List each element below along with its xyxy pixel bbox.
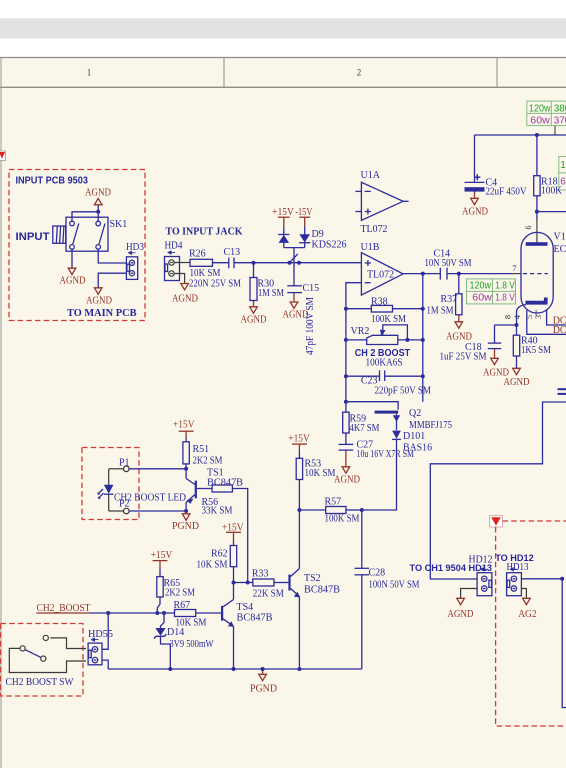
svg-text:HD3: HD3 — [126, 242, 144, 253]
svg-text:2K2 SM: 2K2 SM — [165, 588, 195, 599]
svg-text:10K SM: 10K SM — [305, 468, 336, 479]
svg-text:120w: 120w — [560, 160, 566, 171]
svg-text:+15V: +15V — [288, 434, 310, 445]
svg-text:R37: R37 — [441, 294, 458, 305]
svg-text:60w: 60w — [472, 293, 492, 304]
svg-text:7: 7 — [512, 263, 516, 273]
svg-text:R26: R26 — [189, 249, 206, 260]
svg-text:BC847B: BC847B — [304, 585, 340, 596]
svg-text:C13: C13 — [224, 247, 241, 258]
svg-text:AGND: AGND — [241, 315, 267, 326]
svg-text:CH2 BOOST LED: CH2 BOOST LED — [114, 493, 186, 504]
svg-text:1: 1 — [87, 68, 92, 78]
svg-text:120w: 120w — [470, 281, 492, 292]
svg-text:R33: R33 — [252, 569, 269, 580]
svg-text:TO MAIN PCB: TO MAIN PCB — [67, 307, 137, 319]
svg-text:1.8 V: 1.8 V — [495, 281, 515, 292]
svg-text:TS2: TS2 — [304, 573, 321, 584]
svg-text:DCH: DCH — [553, 325, 566, 336]
svg-text:Q2: Q2 — [409, 408, 421, 419]
svg-text:HD55: HD55 — [88, 629, 113, 640]
svg-text:1M SM: 1M SM — [258, 288, 284, 299]
svg-text:HD13: HD13 — [507, 562, 529, 573]
svg-text:370: 370 — [554, 115, 566, 126]
svg-text:P1: P1 — [119, 458, 130, 469]
svg-text:SK1: SK1 — [110, 219, 128, 230]
svg-text:VR2: VR2 — [351, 326, 370, 337]
svg-text:U1B: U1B — [361, 242, 380, 253]
svg-text:R51: R51 — [193, 444, 210, 455]
svg-text:AGND: AGND — [447, 609, 473, 620]
svg-text:ECC83: ECC83 — [554, 244, 566, 255]
svg-text:100K SM: 100K SM — [325, 514, 360, 525]
svg-text:R67: R67 — [174, 600, 191, 611]
svg-text:380: 380 — [554, 103, 566, 114]
svg-text:CH2 BOOST SW: CH2 BOOST SW — [6, 677, 75, 688]
svg-text:AGND: AGND — [172, 294, 198, 305]
svg-text:1.8 V: 1.8 V — [495, 293, 515, 304]
svg-text:MMBFJ175: MMBFJ175 — [409, 420, 452, 431]
svg-text:22K SM: 22K SM — [253, 589, 284, 600]
svg-text:2K2 SM: 2K2 SM — [193, 456, 223, 467]
svg-text:AGND: AGND — [86, 296, 112, 307]
svg-text:C28: C28 — [369, 568, 386, 579]
svg-text:R57: R57 — [325, 497, 342, 508]
svg-text:TO INPUT JACK: TO INPUT JACK — [166, 226, 243, 238]
svg-text:AGND: AGND — [446, 332, 472, 343]
svg-text:AGND: AGND — [334, 475, 360, 486]
svg-text:U1A: U1A — [361, 170, 381, 181]
svg-text:BC847B: BC847B — [237, 613, 273, 624]
svg-text:10u 16V X7R SM: 10u 16V X7R SM — [357, 449, 415, 460]
svg-text:INPUT: INPUT — [16, 231, 50, 243]
svg-text:AGND: AGND — [60, 276, 86, 287]
svg-text:3: 3 — [534, 315, 543, 319]
svg-text:BC847B: BC847B — [207, 478, 243, 489]
svg-text:10K SM: 10K SM — [197, 560, 228, 571]
svg-text:60w: 60w — [560, 176, 566, 187]
svg-text:AGND: AGND — [85, 188, 111, 199]
svg-text:+15V: +15V — [272, 207, 294, 218]
svg-text:60w: 60w — [530, 115, 550, 126]
svg-text:100N 50V SM: 100N 50V SM — [369, 580, 420, 591]
svg-text:-15V: -15V — [295, 207, 313, 218]
svg-text:AG2: AG2 — [518, 609, 537, 620]
svg-text:C15: C15 — [303, 283, 320, 294]
svg-text:HD4: HD4 — [165, 241, 183, 252]
svg-text:AGND: AGND — [462, 207, 488, 218]
svg-text:6: 6 — [524, 226, 533, 230]
svg-text:220N 25V SM: 220N 25V SM — [189, 279, 241, 290]
svg-text:INPUT PCB 9503: INPUT PCB 9503 — [16, 175, 89, 187]
svg-text:8: 8 — [504, 315, 513, 319]
svg-text:D101: D101 — [403, 431, 425, 442]
svg-text:33K SM: 33K SM — [202, 506, 233, 517]
svg-text:22uF 450V: 22uF 450V — [486, 187, 528, 198]
svg-text:D14: D14 — [167, 627, 184, 638]
svg-text:+15V: +15V — [173, 420, 195, 431]
svg-text:V1A: V1A — [554, 232, 566, 243]
svg-text:PGND: PGND — [250, 684, 277, 695]
svg-text:R62: R62 — [211, 549, 228, 560]
svg-text:3V9 500mW: 3V9 500mW — [170, 639, 214, 650]
svg-text:4K7 SM: 4K7 SM — [350, 423, 380, 434]
svg-text:TL072: TL072 — [367, 270, 394, 281]
svg-text:KDS226: KDS226 — [312, 240, 347, 251]
svg-text:1uF 25V SM: 1uF 25V SM — [440, 352, 487, 363]
svg-text:1M SM: 1M SM — [427, 306, 454, 317]
svg-text:100KA6S: 100KA6S — [366, 358, 403, 369]
svg-text:D9: D9 — [312, 229, 324, 240]
svg-text:+15V: +15V — [222, 523, 244, 534]
svg-text:120w: 120w — [529, 103, 551, 114]
svg-text:TO CH1 9504 HD13: TO CH1 9504 HD13 — [410, 563, 493, 574]
svg-text:47pF 100V SM: 47pF 100V SM — [305, 297, 316, 355]
svg-text:10N 50V SM: 10N 50V SM — [425, 258, 472, 269]
svg-text:4: 4 — [513, 315, 522, 319]
svg-text:+15V: +15V — [151, 550, 173, 561]
svg-text:TS4: TS4 — [237, 602, 254, 613]
svg-text:100K SM: 100K SM — [371, 314, 406, 325]
svg-text:PGND: PGND — [172, 521, 199, 532]
svg-text:5: 5 — [525, 315, 534, 319]
svg-text:1K5 SM: 1K5 SM — [521, 345, 551, 356]
svg-text:R38: R38 — [371, 296, 388, 307]
svg-text:220pF 50V SM: 220pF 50V SM — [375, 386, 432, 397]
svg-text:AGND: AGND — [504, 377, 530, 388]
svg-text:10K SM: 10K SM — [190, 268, 221, 279]
svg-text:CH2_BOOST: CH2_BOOST — [37, 603, 91, 614]
svg-text:TL072: TL072 — [361, 224, 388, 235]
svg-text:2: 2 — [357, 68, 362, 78]
